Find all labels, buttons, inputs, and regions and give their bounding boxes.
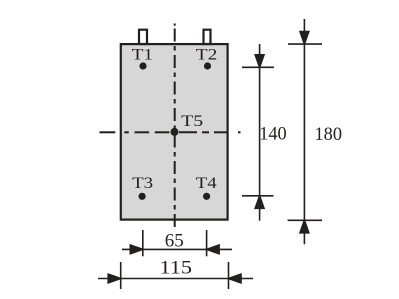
- label T2: [196, 47, 218, 64]
- label T5: [181, 113, 203, 130]
- svg-text:T1: T1: [132, 47, 154, 64]
- svg-text:T5: T5: [181, 113, 203, 130]
- point T3 dot: [139, 193, 146, 200]
- dimension 180 extension tick bottom: [288, 219, 322, 221]
- dimension text 65: [165, 231, 184, 252]
- dimension 140 extension tick top: [242, 66, 274, 68]
- svg-text:180: 180: [315, 124, 343, 145]
- svg-text:140: 140: [259, 123, 287, 144]
- horizontal centerline: [100, 131, 241, 133]
- svg-text:T4: T4: [196, 175, 217, 192]
- point T4 dot: [203, 193, 210, 200]
- svg-text:T3: T3: [132, 175, 153, 192]
- dimension 115 line with outside arrows: [98, 274, 253, 283]
- terminal tab left: [139, 30, 147, 44]
- dimension 65 line with outside arrows: [122, 245, 232, 254]
- label T1: [132, 47, 154, 64]
- svg-text:65: 65: [165, 231, 184, 252]
- dimension 180 line with outside arrows: [300, 19, 309, 244]
- svg-text:115: 115: [160, 258, 193, 279]
- component body (gray rectangle): [121, 44, 228, 220]
- point T5 dot: [171, 128, 179, 136]
- dimension 140 line with outside arrows: [255, 44, 264, 221]
- dimension 115 extension line left: [120, 262, 122, 289]
- terminal tab right: [204, 30, 211, 44]
- label T4: [196, 175, 217, 192]
- point T1 dot: [139, 62, 146, 69]
- dimension 65 extension line right: [206, 230, 208, 256]
- dimension text 180: [315, 124, 343, 145]
- dimension text 115: [160, 258, 193, 279]
- dimension 140 extension tick bottom: [242, 195, 274, 197]
- dimension 115 extension line right: [228, 262, 230, 289]
- point T2 dot: [204, 62, 211, 69]
- svg-text:T2: T2: [196, 47, 218, 64]
- dimension 65 extension line left: [142, 230, 144, 256]
- dimension 180 extension tick top: [288, 43, 322, 45]
- dimension text 140: [259, 123, 287, 144]
- vertical centerline: [174, 24, 176, 228]
- label T3: [132, 175, 153, 192]
